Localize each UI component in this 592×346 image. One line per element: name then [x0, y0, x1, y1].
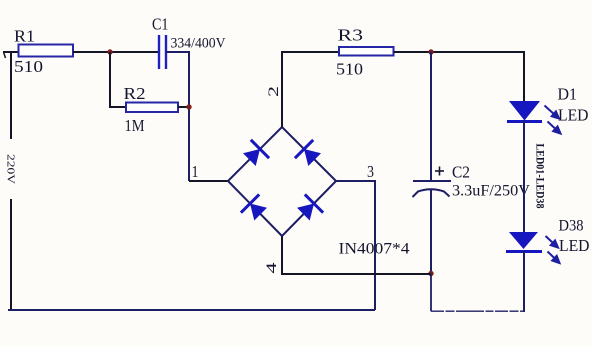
wire: bridge edge bottom-left: [228, 181, 282, 236]
svg-text:LED01-LED38: LED01-LED38: [534, 144, 546, 209]
LED D38 light arrows: [546, 236, 560, 263]
svg-text:334/400V: 334/400V: [171, 36, 226, 52]
svg-text:220V: 220V: [5, 154, 17, 184]
wire: node 4 down and right: [282, 236, 431, 274]
wire: left rail upper segment: [10, 52, 12, 139]
svg-text:LED: LED: [559, 236, 590, 255]
svg-text:3.3uF/250V: 3.3uF/250V: [452, 183, 530, 200]
svg-text:LED: LED: [558, 106, 589, 125]
LED D1 light arrows: [545, 106, 561, 134]
junction dot at R2/C1 node: [186, 104, 191, 109]
wire: node 1 horizontal: [189, 180, 228, 182]
svg-text:C1: C1: [152, 15, 169, 34]
LED D1: [507, 101, 542, 122]
diode bridge edges: [228, 127, 336, 236]
diode bridge upper-right (3 to 2): [295, 140, 321, 166]
svg-text:D1: D1: [558, 85, 578, 104]
junction dot top of C2 rail: [428, 49, 433, 54]
wire: bridge edge top-right: [282, 127, 336, 181]
plus sign of C2: [435, 167, 444, 176]
wire: D38 down to bottom corner: [523, 251, 525, 312]
wire: top right corner down to D1: [523, 51, 525, 101]
svg-text:1: 1: [192, 162, 199, 181]
svg-text:3: 3: [367, 162, 374, 181]
capacitor C1: [159, 35, 166, 69]
resistor R3: [339, 47, 394, 56]
resistor R1: [19, 45, 74, 57]
capacitor C2 top plate: [413, 180, 451, 182]
diode bridge upper-left (1 to 2): [243, 140, 269, 166]
svg-text:D38: D38: [559, 218, 584, 235]
svg-text:510: 510: [336, 60, 363, 79]
wire: left rail lower segment: [10, 199, 12, 310]
capacitor C2 bottom plate (curved): [413, 189, 450, 197]
svg-text:1M: 1M: [125, 116, 145, 135]
wire: junction down to R2 left: [110, 52, 126, 107]
wire: C2 rail bottom: [430, 190, 432, 274]
wire: R3 right to LED column: [394, 51, 525, 53]
wire: R1 right to C1: [73, 51, 159, 53]
wire: bridge edge left-top: [228, 127, 282, 181]
svg-text:R3: R3: [338, 26, 364, 45]
svg-text:C2: C2: [452, 163, 470, 182]
svg-text:510: 510: [14, 57, 43, 76]
wire: terminal tick: [4, 52, 6, 58]
diode bridge lower-right (4 to 3): [297, 194, 323, 220]
svg-text:R1: R1: [14, 27, 35, 46]
wire: node 2 up and to R3: [282, 52, 339, 127]
junction dot bottom of C2 rail: [428, 271, 433, 276]
wire: C2 rail top: [430, 52, 432, 181]
wire: C2 rail to bottom corner and right: [430, 274, 432, 312]
svg-text:R2: R2: [124, 84, 146, 103]
junction dot at R1/C1/R2 node: [107, 49, 112, 54]
wire: R2 right to vertical: [178, 106, 189, 108]
wire: node 3 to right and down: [336, 181, 375, 310]
resistor R2: [126, 103, 178, 113]
svg-text:2: 2: [266, 86, 282, 97]
svg-text:4: 4: [264, 262, 280, 274]
LED D38: [506, 232, 542, 252]
wire: stub left of R1: [3, 51, 18, 53]
wire: C1 right plate to corner, down to node 1: [166, 52, 189, 181]
diode bridge lower-left (4 to 1): [241, 194, 267, 220]
wire: D1 to D38: [523, 121, 525, 232]
wire: bottom long wire to node 3 column: [8, 309, 375, 311]
wire: bridge edge right-bottom: [282, 181, 336, 236]
